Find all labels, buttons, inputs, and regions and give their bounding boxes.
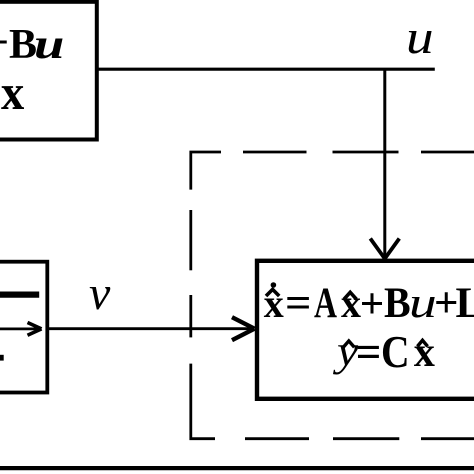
hat and dot over xdot-hat (observer line 1) — [266, 289, 279, 296]
wire u (horizontal from plant to right) — [97, 68, 435, 71]
dashed boundary left segments — [189, 210, 192, 270]
dashed boundary bottom-left corner — [191, 364, 215, 439]
dashed boundary bottom segments — [245, 437, 309, 440]
observer line 1 L (cropped) — [456, 282, 474, 325]
dashed boundary top segments — [243, 151, 307, 154]
figure bottom border — [0, 466, 474, 470]
hat over x-hat (observer line 1, after A) — [344, 292, 356, 299]
observer line 2 equals — [356, 330, 382, 375]
observer line 1 u — [409, 282, 437, 325]
sensor cropped glyph fragment — [0, 355, 4, 361]
plant equation fragment "+B" — [0, 24, 37, 66]
label v — [89, 270, 110, 318]
sensor internal bar — [0, 291, 39, 297]
label u — [406, 14, 434, 62]
observer block (cropped at right) — [257, 261, 474, 399]
observer line 1: x of x-hat-dot — [264, 284, 284, 324]
sensor internal arrow — [0, 327, 38, 330]
dashed observer boundary: top-left corner — [191, 152, 221, 190]
observer line 2 y-hat — [337, 330, 358, 373]
observer line 1 A — [314, 282, 337, 325]
wire v (sensor to observer) — [47, 327, 252, 330]
plant equation fragment "x" — [1, 67, 24, 117]
hat over y-hat (observer line 2) — [343, 341, 354, 347]
observer line 1 x of x-hat — [341, 284, 361, 324]
plant block (state equations box, cropped at left) — [0, 2, 97, 140]
observer line 1 B — [384, 282, 411, 325]
arrowhead into observer top — [370, 239, 399, 259]
observer line 2 C — [381, 330, 410, 375]
plant equation fragment "u" — [34, 24, 64, 66]
observer line 1 plus 2 — [434, 282, 459, 325]
observer line 1 equals — [285, 282, 311, 325]
observer line 1 plus — [360, 283, 385, 326]
arrowhead into observer left — [232, 317, 255, 340]
wire u branch (vertical drop into observer) — [383, 69, 386, 258]
sensor block (cropped at left) — [0, 262, 47, 393]
hat over x-hat (observer line 2) — [417, 340, 427, 346]
observer line 2 x of x-hat — [414, 332, 435, 374]
